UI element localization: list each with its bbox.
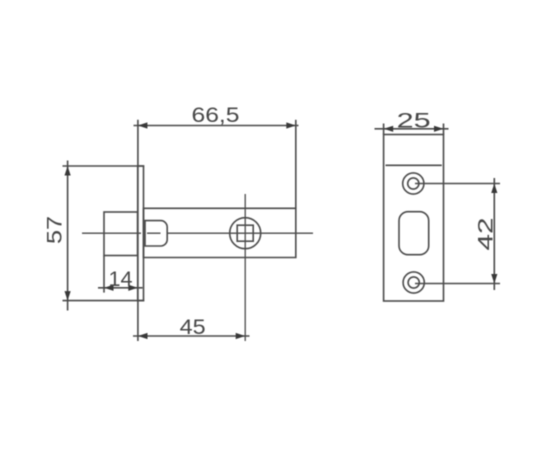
bolt tail (rounded) — [145, 221, 167, 246]
spindle hub circle — [230, 218, 261, 249]
horizontal centerline — [82, 232, 313, 234]
arrowhead 42 top — [491, 184, 497, 194]
svg-text:45: 45 — [180, 316, 206, 339]
faceplate (side view) — [138, 166, 144, 301]
dimension line 45 — [133, 335, 250, 337]
extension lines 42 — [415, 184, 500, 284]
svg-text:42: 42 — [475, 218, 498, 251]
spindle square hole — [237, 225, 253, 241]
extension line 14 — [103, 256, 105, 293]
svg-text:14: 14 — [109, 268, 133, 291]
arrowhead 57 top — [65, 166, 71, 176]
vertical centerline — [244, 194, 246, 341]
bottom screw hole — [403, 272, 424, 293]
extension line left (66,5 / faceplate / 45) — [137, 120, 139, 341]
arrowhead 25 left — [384, 126, 394, 132]
extension line right of 66,5 — [295, 120, 297, 209]
dimension line 57 — [67, 161, 69, 311]
svg-text:66,5: 66,5 — [192, 104, 240, 127]
top screw hole — [403, 173, 424, 194]
svg-text:57: 57 — [44, 216, 67, 244]
latch bolt (protruding) — [104, 212, 138, 256]
dimension line 25 — [375, 128, 449, 130]
arrowhead 14 right — [128, 285, 138, 291]
latch tube body — [144, 208, 296, 257]
arrowhead 25 right — [434, 126, 444, 132]
arrowhead 66,5 left — [138, 122, 148, 128]
plate step line — [386, 164, 442, 166]
arrowhead 66,5 right — [286, 122, 296, 128]
latch cutout — [399, 212, 429, 255]
strike plate outline (front view) — [384, 135, 444, 302]
arrowhead 45 left — [138, 333, 148, 339]
dimension line 14 — [98, 287, 143, 289]
extension lines 57 — [63, 166, 145, 301]
svg-text:25: 25 — [397, 109, 431, 132]
arrowhead 45 right — [236, 333, 246, 339]
arrowhead 57 bottom — [65, 291, 71, 301]
arrowhead 14 left — [104, 285, 114, 291]
dimension line 42 — [493, 178, 495, 290]
extension lines 25 — [384, 124, 444, 135]
arrowhead 42 bottom — [491, 274, 497, 284]
dimension line 66,5 — [134, 125, 299, 127]
